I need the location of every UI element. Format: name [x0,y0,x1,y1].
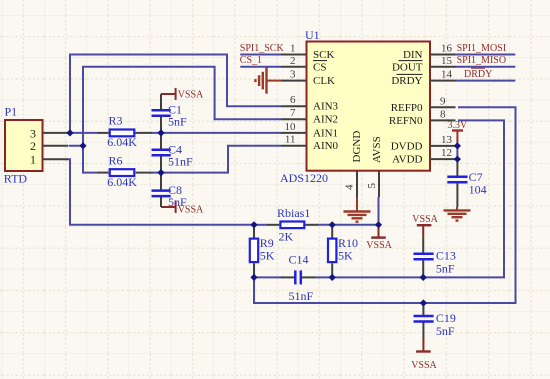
svg-text:VSSA: VSSA [412,214,438,225]
power port VSSA (below C19) [411,338,437,371]
svg-text:CS: CS [313,61,326,73]
U1 pin 12 AVDD [392,147,455,166]
junction node DVDD [454,142,461,149]
U1 pin 4 DGND [344,131,364,197]
junction node AVSS rail [375,221,382,228]
junction node R10 bottom [329,274,336,281]
power port VSSA (above C1) [161,88,204,101]
svg-text:R3: R3 [109,114,123,128]
junction node P1.2 [79,142,86,149]
svg-text:DOUT: DOUT [392,61,423,73]
net label SPI1_MISO [457,55,506,66]
svg-text:16: 16 [441,43,453,55]
wire CS_1 [240,66,281,68]
wire Rbias1 to AVSS pin5 [317,224,379,226]
wire 3.3V to DVDD AVDD [456,140,458,159]
svg-text:12: 12 [441,147,452,159]
resistor R6 [98,153,152,189]
power port 3.3V [448,120,469,141]
net label CS_1 [240,55,262,66]
svg-text:REFP0: REFP0 [391,102,423,114]
resistor R9 [250,225,275,278]
svg-text:ADS1220: ADS1220 [280,171,328,185]
svg-text:5nF: 5nF [168,114,187,128]
svg-text:CS_1: CS_1 [240,55,262,66]
wire R9 bottom to C14 [254,276,282,278]
wire DRDY [455,80,515,82]
junction node C4/C8 row [157,169,164,176]
junction node C1/C4 row [157,129,164,136]
capacitor C1 [152,94,188,133]
wire SPI1_MOSI [455,54,515,56]
U1 pin 11 AIN0 [281,134,339,153]
wire R6 to AIN0 [152,146,281,173]
U1 pin 5 AVSS [366,136,383,197]
U1 pin 9 REFP0 [391,95,456,114]
svg-text:AIN3: AIN3 [313,101,339,113]
svg-text:6: 6 [290,94,296,106]
junction node C19 top [420,299,427,306]
svg-text:6.04K: 6.04K [107,175,137,189]
svg-text:1: 1 [30,153,36,167]
svg-text:AIN2: AIN2 [313,114,338,126]
svg-text:AVSS: AVSS [371,136,383,163]
svg-text:DVDD: DVDD [391,140,423,152]
net label SPI1_SCK [240,43,285,54]
svg-text:VSSA: VSSA [178,204,204,215]
svg-text:3: 3 [30,126,36,140]
svg-text:SCK: SCK [313,49,334,61]
wire junction to R3 [67,132,99,134]
svg-text:4: 4 [344,184,356,190]
capacitor C14 [281,253,315,303]
junction node P1.3/R3 [66,129,73,136]
junction node C13 bottom [420,274,427,281]
net label DRDY [464,68,492,80]
ground (earth) below C7 [444,207,471,221]
junction node R9 bottom [250,274,257,281]
svg-text:U1: U1 [305,28,320,42]
resistor R3 [98,114,152,150]
wire P1.1 down to bias rail [67,159,254,225]
svg-text:10: 10 [285,121,297,133]
svg-text:SPI1_SCK: SPI1_SCK [240,43,285,54]
U1 pin 2 CS [281,55,327,74]
capacitor C8 [152,173,188,209]
svg-text:5K: 5K [338,249,353,263]
power port VSSA (below C8) [161,201,204,215]
power port VSSA (above C13) [412,214,438,238]
svg-text:P1: P1 [5,105,18,119]
resistor Rbias1 [267,206,318,244]
svg-text:1: 1 [290,43,296,55]
svg-text:C13: C13 [436,248,456,262]
svg-text:VSSA: VSSA [411,360,437,371]
connector P1 [4,105,68,186]
svg-text:5nF: 5nF [436,324,455,338]
svg-text:RTD: RTD [4,172,28,186]
net label SPI1_MOSI [457,43,506,54]
svg-text:DRDY: DRDY [464,69,492,80]
svg-text:AIN1: AIN1 [313,127,338,139]
U1 pin 14 DRDY [391,69,455,88]
wire R3 to AIN1 [152,132,282,134]
svg-text:5nF: 5nF [436,261,455,275]
U1 pin 15 DOUT [392,55,456,74]
wire SPI1_MISO [455,66,515,68]
U1 pin 7 AIN2 [281,107,338,126]
svg-text:AVDD: AVDD [392,154,422,166]
svg-text:VSSA: VSSA [178,89,204,100]
svg-text:8: 8 [440,108,446,120]
svg-text:14: 14 [441,69,453,81]
svg-text:2: 2 [30,139,36,153]
U1 pin 1 SCK [281,43,334,62]
svg-text:11: 11 [285,134,296,146]
U1 pin 16 DIN [403,43,456,62]
junction node R10 top [329,221,336,228]
svg-text:AIN0: AIN0 [313,140,339,152]
capacitor C13 [414,238,456,277]
U1 pin 6 AIN3 [281,94,339,113]
wire SPI1_SCK [240,54,281,56]
svg-text:R6: R6 [109,153,123,167]
svg-text:VSSA: VSSA [366,240,392,251]
capacitor C19 [414,303,456,338]
wire AVSS pin5 down [378,197,380,225]
wire P1.2 to AIN2 (via top) [69,67,282,146]
ground (earth) at DGND pin 4 [344,197,371,222]
capacitor C4 [152,133,194,173]
wire P1.3 to AIN3 (via top) [70,55,281,133]
U1 pin 13 DVDD [391,134,456,153]
junction node R9 top [250,221,257,228]
junction node AVDD [454,156,461,163]
svg-text:SPI1_MISO: SPI1_MISO [457,55,506,66]
svg-text:DIN: DIN [403,49,423,61]
U1 pin 3 CLK [281,69,335,88]
svg-text:6.04K: 6.04K [107,135,137,149]
svg-text:REFN0: REFN0 [389,115,423,127]
power port VSSA (at AVSS rail) [366,225,392,251]
U1 pin 10 AIN1 [281,121,338,140]
svg-text:104: 104 [469,183,487,197]
svg-text:CLK: CLK [313,75,335,87]
capacitor C7 [447,159,486,207]
U1 pin 8 REFN0 [389,108,456,127]
op-amp U1 body (ADS1220) [280,28,430,185]
svg-text:7: 7 [290,107,296,119]
wire pin2 drop to R6 [83,146,99,173]
svg-text:Rbias1: Rbias1 [277,206,310,220]
wire C14 to REFN0 (via right) [315,120,505,277]
svg-text:DGND: DGND [351,131,363,163]
svg-text:15: 15 [441,55,453,67]
svg-text:2K: 2K [279,229,294,243]
svg-text:9: 9 [440,95,446,107]
svg-text:3: 3 [290,69,296,81]
svg-text:13: 13 [441,134,453,146]
svg-text:51nF: 51nF [289,289,314,303]
wire rail junction to Rbias1 [254,224,268,226]
svg-text:C14: C14 [289,253,309,267]
svg-text:DRDY: DRDY [391,75,422,87]
svg-text:51nF: 51nF [168,154,193,168]
svg-text:SPI1_MOSI: SPI1_MOSI [457,43,506,54]
wire REFP0 loop (bottom) [254,107,516,303]
svg-text:2: 2 [290,55,296,67]
ground (earth) at CLK pin 3 [255,68,281,94]
resistor R10 [328,225,358,278]
svg-text:5K: 5K [260,249,275,263]
svg-text:5: 5 [366,183,378,189]
